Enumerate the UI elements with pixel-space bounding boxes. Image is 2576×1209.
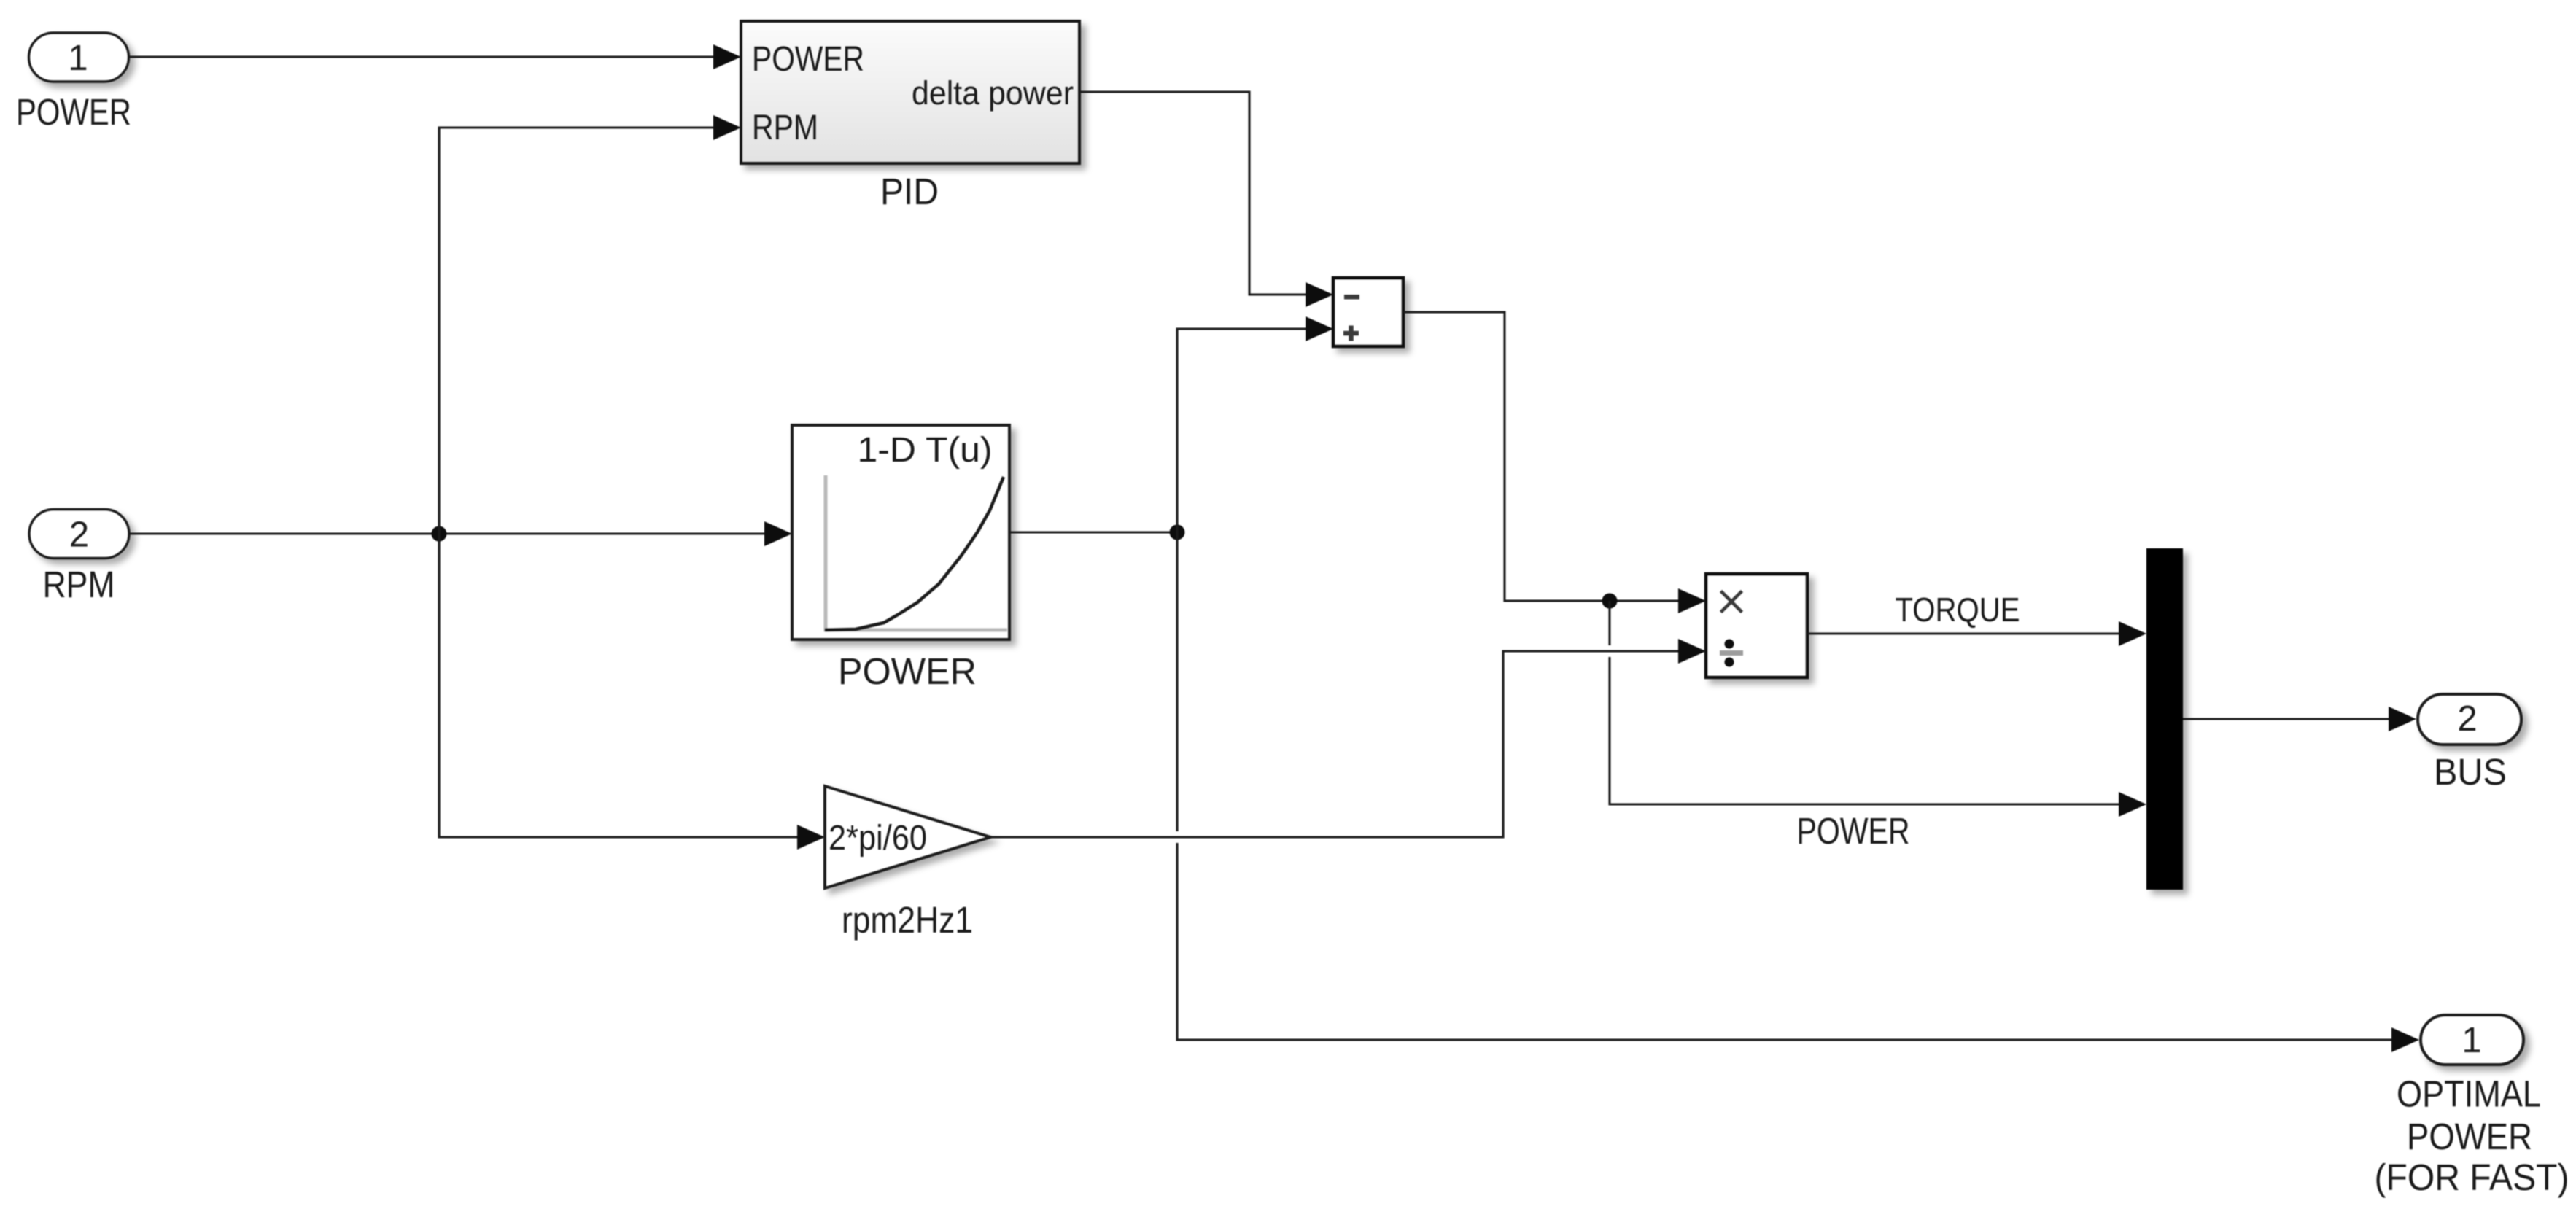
wire mux output to outport BUS bbox=[2183, 707, 2416, 731]
svg-text:POWER: POWER bbox=[2407, 1116, 2532, 1157]
outport 1 OPTIMAL POWER bbox=[2375, 1015, 2569, 1198]
divide symbol bbox=[1720, 650, 1743, 656]
svg-text:POWER: POWER bbox=[752, 40, 864, 79]
svg-text:(FOR FAST): (FOR FAST) bbox=[2375, 1156, 2569, 1198]
plus sign bbox=[1343, 326, 1359, 341]
wire port2 RPM to lookup table bbox=[130, 521, 792, 546]
svg-text:POWER: POWER bbox=[838, 650, 977, 692]
svg-text:2: 2 bbox=[69, 516, 89, 555]
svg-text:RPM: RPM bbox=[43, 564, 115, 605]
svg-text:1: 1 bbox=[2461, 1021, 2481, 1060]
svg-text:rpm2Hz1: rpm2Hz1 bbox=[842, 899, 973, 941]
wire port1 to PID input POWER bbox=[130, 44, 741, 69]
lookup axes bbox=[826, 475, 1007, 630]
inport 2 RPM bbox=[29, 510, 129, 606]
wire RPM branch up to PID input RPM bbox=[439, 115, 741, 534]
times symbol bbox=[1721, 591, 1742, 613]
wire lookup output to junction bbox=[1009, 531, 1177, 533]
svg-text:PID: PID bbox=[880, 171, 939, 212]
lookup curve bbox=[825, 477, 1004, 630]
wire sum output to product x input bbox=[1403, 312, 1706, 613]
node junction on RPM wire bbox=[432, 526, 447, 542]
lookup table block POWER bbox=[792, 425, 1009, 640]
node junction sum output branch bbox=[1602, 594, 1618, 609]
node junction lookup output bbox=[1170, 525, 1185, 540]
svg-text:OPTIMAL: OPTIMAL bbox=[2397, 1073, 2541, 1115]
svg-text:1-D T(u): 1-D T(u) bbox=[858, 431, 993, 470]
svg-text:delta power: delta power bbox=[912, 74, 1074, 112]
subsystem block PID bbox=[741, 21, 1079, 163]
wire junction down to mux POWER input bbox=[1610, 601, 2146, 817]
product block bbox=[1706, 574, 1807, 677]
svg-text:1: 1 bbox=[68, 39, 88, 78]
svg-text:2: 2 bbox=[2457, 699, 2477, 739]
inport 1 POWER bbox=[16, 33, 131, 133]
wire junction down to outport OPTIMAL POWER bbox=[1177, 532, 2419, 1052]
wire PID delta power to sum minus input bbox=[1079, 92, 1333, 307]
wire gain output to product divide input bbox=[990, 639, 1706, 837]
svg-text:BUS: BUS bbox=[2434, 751, 2507, 793]
wire product output to mux TORQUE input bbox=[1807, 621, 2146, 646]
svg-text:RPM: RPM bbox=[752, 109, 818, 147]
gain block rpm2Hz1 bbox=[825, 786, 990, 888]
sum block bbox=[1333, 278, 1403, 346]
minus sign bbox=[1344, 295, 1359, 300]
svg-text:2*pi/60: 2*pi/60 bbox=[829, 819, 927, 858]
svg-text:POWER: POWER bbox=[16, 91, 131, 133]
svg-text:POWER: POWER bbox=[1797, 810, 1910, 852]
mux block bbox=[2146, 548, 2183, 890]
svg-text:TORQUE: TORQUE bbox=[1896, 591, 2020, 629]
outport 2 BUS bbox=[2418, 694, 2521, 793]
wire junction up to sum plus input bbox=[1177, 316, 1333, 532]
wire RPM branch down to gain rpm2Hz1 bbox=[439, 534, 825, 850]
